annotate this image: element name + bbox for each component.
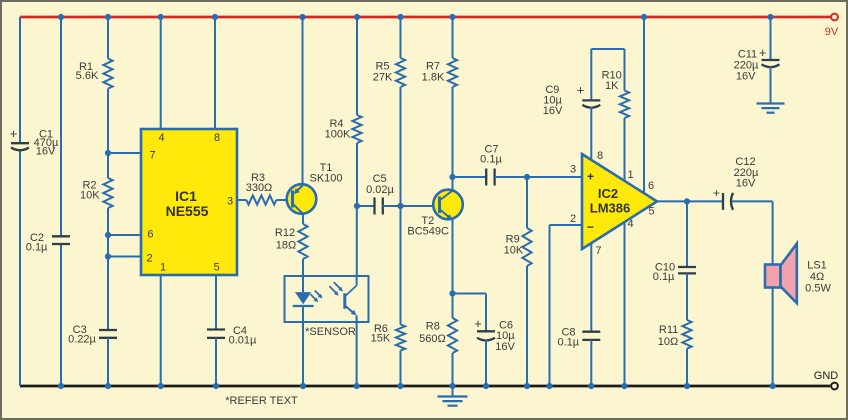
wire phototransistor collector up <box>356 206 358 286</box>
wire gain bracket <box>591 49 624 100</box>
svg-text:330Ω: 330Ω <box>246 182 273 194</box>
svg-text:4: 4 <box>627 218 633 230</box>
op-amp IC2 LM386 <box>570 150 657 257</box>
svg-text:GND: GND <box>814 370 839 382</box>
LED in sensor <box>293 292 314 306</box>
svg-text:1: 1 <box>627 169 633 181</box>
svg-text:+: + <box>10 126 18 141</box>
wire emitter to C6 <box>453 294 487 332</box>
svg-text:27K: 27K <box>373 72 393 84</box>
resistor R3 <box>246 172 277 205</box>
svg-text:5: 5 <box>648 206 654 218</box>
wire C2 vertical <box>60 17 62 386</box>
wire pin4 to rail <box>160 17 162 129</box>
light arrows into phototransistor <box>330 282 343 296</box>
svg-text:4Ω: 4Ω <box>810 271 824 283</box>
svg-text:6: 6 <box>648 180 654 192</box>
svg-text:6: 6 <box>147 229 153 241</box>
junction C2 top rail <box>58 14 64 20</box>
svg-text:16V: 16V <box>543 105 563 117</box>
wire C6 gnd <box>485 340 487 386</box>
junction R1 rail <box>105 14 111 20</box>
label GND <box>814 370 839 382</box>
svg-text:3: 3 <box>227 196 233 208</box>
svg-text:0.02µ: 0.02µ <box>366 184 394 196</box>
ground symbol under C11 <box>757 93 785 113</box>
junction pin6 rail <box>641 14 647 20</box>
svg-text:3: 3 <box>570 164 576 176</box>
svg-text:1K: 1K <box>605 80 619 92</box>
junction R6 gnd <box>397 383 403 389</box>
svg-text:+: + <box>474 316 482 331</box>
capacitor C5 <box>366 173 394 215</box>
junction pin2 gnd <box>546 383 552 389</box>
svg-text:+: + <box>713 186 720 200</box>
junction R7 rail <box>449 14 455 20</box>
wire speaker to gnd <box>772 288 774 387</box>
junction node R5-R6 <box>397 203 403 209</box>
svg-text:SK100: SK100 <box>309 173 342 185</box>
wire R4 to C5 node <box>356 143 358 206</box>
junction LED gnd <box>300 383 306 389</box>
wire pin7 down <box>590 243 592 332</box>
resistor R2 <box>80 178 113 208</box>
svg-text:7: 7 <box>149 150 155 162</box>
svg-text:18Ω: 18Ω <box>276 240 296 252</box>
svg-text:100K: 100K <box>325 129 351 141</box>
junction T1 rail <box>299 14 305 20</box>
svg-text:7: 7 <box>595 245 601 257</box>
transistor T2 BC549C <box>407 190 462 238</box>
svg-text:16V: 16V <box>736 177 756 189</box>
capacitor C6 <box>474 316 515 353</box>
resistor R9 <box>504 228 532 266</box>
svg-text:*SENSOR: *SENSOR <box>305 326 356 338</box>
svg-text:16V: 16V <box>736 71 756 83</box>
resistor R7 <box>422 58 457 87</box>
capacitor C11 <box>734 45 780 83</box>
wire pin6 <box>108 234 141 236</box>
svg-text:1: 1 <box>160 262 166 274</box>
wire R5 top <box>400 17 402 58</box>
capacitor C9 <box>543 83 600 118</box>
wire R7 top <box>452 17 454 58</box>
junction node C5 left <box>354 203 360 209</box>
junction R5 rail <box>397 14 403 20</box>
GND terminal <box>831 383 838 390</box>
svg-text:5: 5 <box>214 262 220 274</box>
resistor R8 <box>419 294 457 387</box>
svg-text:0.1µ: 0.1µ <box>557 337 579 349</box>
svg-text:LM386: LM386 <box>590 201 630 216</box>
svg-text:560Ω: 560Ω <box>419 333 446 345</box>
IC IC1 NE555 <box>141 129 237 275</box>
svg-text:15K: 15K <box>371 333 391 345</box>
speaker LS1 <box>765 244 831 304</box>
resistor R10 <box>602 70 629 119</box>
capacitor C3 <box>68 324 117 346</box>
svg-text:+: + <box>577 83 585 98</box>
svg-text:2: 2 <box>570 213 576 225</box>
svg-text:8: 8 <box>214 132 220 144</box>
junction T2 collector node <box>449 174 455 180</box>
svg-text:10K: 10K <box>80 190 100 202</box>
svg-text:+: + <box>587 170 594 184</box>
wire C3-gnd <box>107 338 109 386</box>
junction node pin7 <box>105 150 111 156</box>
wire pin2 in <box>550 225 583 386</box>
wire R5-R6 <box>400 87 402 324</box>
wire pin5 out <box>657 200 723 202</box>
junction speaker gnd <box>770 383 776 389</box>
svg-text:0.1µ: 0.1µ <box>480 154 502 166</box>
resistor R5 <box>373 58 405 87</box>
junction pin8 rail <box>212 14 218 20</box>
resistor R1 <box>76 59 113 89</box>
wire node to C7 <box>453 176 487 178</box>
wire R6 gnd <box>400 351 402 386</box>
resistor R12 <box>275 224 308 259</box>
svg-text:1.8K: 1.8K <box>422 72 445 84</box>
capacitor C2 <box>26 232 70 254</box>
wire pin6 to rail <box>643 17 645 193</box>
svg-text:*REFER TEXT: *REFER TEXT <box>225 395 298 407</box>
svg-text:R12: R12 <box>275 227 295 239</box>
svg-text:10Ω: 10Ω <box>658 336 678 348</box>
svg-text:R8: R8 <box>426 321 440 333</box>
wire R11 gnd <box>686 349 688 386</box>
wire pin8 to rail <box>214 17 216 129</box>
svg-text:10K: 10K <box>504 245 524 257</box>
wire C8 gnd <box>590 340 592 386</box>
wire R9 top <box>526 177 528 228</box>
wire C11 top <box>770 17 772 60</box>
svg-text:0.22µ: 0.22µ <box>68 334 96 346</box>
capacitor C7 <box>480 144 502 186</box>
junction C8 gnd <box>588 383 594 389</box>
note REFER TEXT <box>225 395 298 407</box>
junction node pin2 <box>105 253 111 259</box>
junction C11 rail <box>767 14 773 20</box>
junction C3 gnd <box>105 383 111 389</box>
svg-text:+: + <box>759 45 767 60</box>
wire C12 to speaker <box>732 201 773 264</box>
junction C10 node <box>684 198 690 204</box>
junction R9 node <box>524 174 530 180</box>
wire R1 top <box>107 17 109 59</box>
wire T1 collector to R12 <box>302 214 304 224</box>
transistor T1 SK100 <box>287 162 343 214</box>
svg-text:BC549C: BC549C <box>407 226 449 238</box>
junction pin4 rail <box>158 14 164 20</box>
wire R12 to sensor LED <box>302 259 304 292</box>
LED emission arrows <box>311 291 323 303</box>
svg-text:R11: R11 <box>659 324 678 336</box>
svg-text:8: 8 <box>597 150 603 162</box>
svg-text:NE555: NE555 <box>166 203 209 219</box>
resistor R6 <box>371 323 405 350</box>
sensor box <box>285 276 369 322</box>
wire pin2 <box>108 256 141 258</box>
wire pin4 down <box>624 223 626 386</box>
wire C9 to pin8 <box>590 107 592 161</box>
9V terminal <box>831 14 838 21</box>
wire C10 top <box>686 201 688 267</box>
wire C11 down <box>770 66 772 93</box>
junction C4 gnd <box>213 383 219 389</box>
svg-text:IC1: IC1 <box>175 188 197 204</box>
junction C6 gnd <box>483 383 489 389</box>
junction photoemitter gnd <box>354 383 360 389</box>
junction C2 bottom rail <box>58 383 64 389</box>
junction R4 rail <box>354 14 360 20</box>
svg-text:−: − <box>587 220 594 234</box>
svg-text:0.5W: 0.5W <box>805 283 831 295</box>
phototransistor in sensor <box>345 286 357 316</box>
wire LED cathode to gnd <box>302 306 304 386</box>
wire R4 top <box>356 17 358 115</box>
wire R7 to node <box>452 87 454 177</box>
wire C5 left <box>357 205 375 207</box>
junction emitter node <box>449 290 455 296</box>
wire T2 emitter down <box>452 220 454 294</box>
svg-text:0.1µ: 0.1µ <box>653 271 675 283</box>
resistor R4 <box>325 115 362 143</box>
wire battery-left vertical <box>19 17 21 386</box>
junction node pin6 <box>105 232 111 238</box>
capacitor C4 <box>207 325 257 347</box>
ground rail <box>20 385 830 388</box>
capacitor C8 <box>557 327 600 349</box>
svg-text:0.01µ: 0.01µ <box>229 335 257 347</box>
wire pin1 to gnd <box>160 275 162 386</box>
wire R3 to T1 base <box>276 199 292 201</box>
junction pin4 gnd <box>621 383 627 389</box>
wire pin3 <box>237 199 246 201</box>
wire R2-C3 <box>107 208 109 330</box>
junction R11 gnd <box>684 383 690 389</box>
svg-text:5.6K: 5.6K <box>76 70 99 82</box>
label 9V <box>825 26 839 38</box>
wire T1 emitter to rail <box>302 17 304 186</box>
svg-text:IC2: IC2 <box>598 186 618 201</box>
svg-text:0.1µ: 0.1µ <box>26 242 48 254</box>
junction R9 gnd <box>524 383 530 389</box>
9V power rail <box>20 16 831 19</box>
svg-text:LS1: LS1 <box>807 260 827 272</box>
resistor R11 <box>658 320 692 349</box>
svg-text:9V: 9V <box>825 26 839 38</box>
wire R9 gnd <box>526 266 528 386</box>
wire pin7 <box>108 152 141 154</box>
svg-text:16V: 16V <box>36 146 56 158</box>
capacitor C1 <box>10 126 59 158</box>
wire R10 to pin1 <box>624 118 626 182</box>
wire C10-R11 <box>686 273 688 320</box>
wire pin5 to C4 <box>215 275 217 330</box>
junction R8 gnd <box>449 383 455 389</box>
wire R1-R2 <box>107 89 109 178</box>
capacitor C10 <box>653 262 696 284</box>
wire collector <box>452 177 454 191</box>
wire C7 to pin3 <box>495 176 582 178</box>
svg-text:16V: 16V <box>495 341 515 353</box>
capacitor C12 <box>713 156 759 210</box>
ground symbol under R8 <box>438 386 468 406</box>
wire C5 to T2 base <box>383 205 440 207</box>
svg-text:2: 2 <box>147 253 153 265</box>
wire C4 to gnd <box>215 338 217 386</box>
junction pin1 gnd <box>158 383 164 389</box>
svg-text:4: 4 <box>159 132 165 144</box>
wire phototransistor emitter to gnd <box>356 315 358 386</box>
label *SENSOR <box>305 326 356 338</box>
